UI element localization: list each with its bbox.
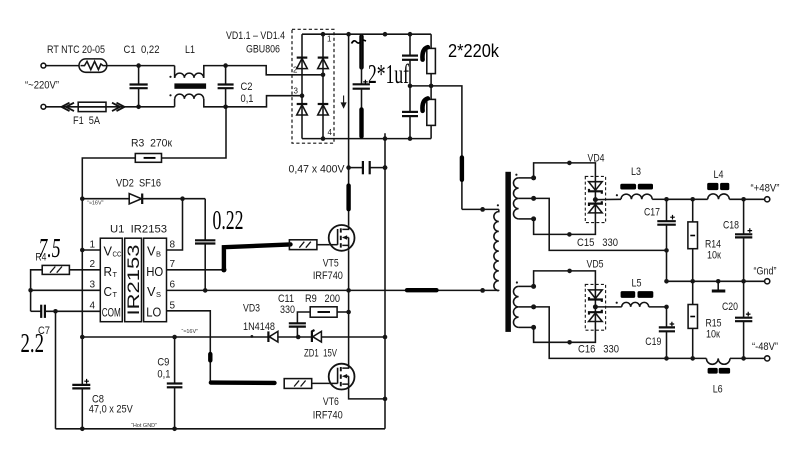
svg-text:2: 2 <box>90 259 96 270</box>
capacitor C19 <box>666 307 668 327</box>
svg-text:C18: C18 <box>723 220 739 232</box>
wire LO pin5 <box>167 311 211 383</box>
node minus rail C <box>408 136 413 141</box>
transformer core <box>505 172 511 332</box>
svg-text:“~220V”: “~220V” <box>25 80 59 92</box>
svg-text:VD3: VD3 <box>243 302 260 314</box>
svg-text:VT6: VT6 <box>323 396 339 408</box>
hand retrace LO <box>208 354 212 360</box>
node C18 top <box>741 197 746 202</box>
node C16 bottom <box>567 340 572 345</box>
svg-text:U1 IR2153: U1 IR2153 <box>110 224 167 236</box>
diode pack VD5 <box>585 284 605 330</box>
node C19 top <box>664 305 669 310</box>
svg-text:“+48V”: “+48V” <box>751 183 780 195</box>
capacitor C2 <box>225 66 227 84</box>
wire DC plus rail <box>302 33 431 35</box>
svg-text:1N4148: 1N4148 <box>243 321 275 333</box>
wire upper sec top to VD4 <box>534 163 596 182</box>
node hot-gnd 0,47 <box>383 165 388 170</box>
node 0,47 left <box>346 165 351 170</box>
node C17 top <box>664 197 669 202</box>
svg-text:3: 3 <box>294 87 299 96</box>
resistor R3 <box>162 107 227 158</box>
wire Gnd rail <box>667 280 765 282</box>
wire VT5 source to VT6 drain <box>348 251 350 364</box>
clip mark left <box>66 103 74 111</box>
wire VT6 source <box>349 390 385 399</box>
node Vcc VD2 <box>80 196 85 201</box>
svg-text:7.5: 7.5 <box>39 233 61 263</box>
node C15 bottom <box>567 232 572 237</box>
hand stroke HO to gate <box>224 244 291 269</box>
node -48 C20 <box>741 356 746 361</box>
choke L6 <box>706 358 730 364</box>
svg-text:R: R <box>104 264 113 279</box>
terminal Gnd <box>765 279 770 284</box>
svg-text:L1: L1 <box>185 44 195 56</box>
node C7 out <box>53 309 58 314</box>
IC pin name VS <box>147 284 161 299</box>
svg-text:L5: L5 <box>632 278 642 290</box>
node gnd R14 <box>690 279 695 284</box>
resistor VT5 gate <box>289 240 317 250</box>
svg-text:ZD1 15V: ZD1 15V <box>304 347 337 359</box>
choke L5 <box>595 306 621 308</box>
node Vcc pin1 <box>80 248 85 253</box>
node VD2 out <box>180 196 185 201</box>
resistor bleeder bottom <box>427 99 436 125</box>
diode pack VD4 <box>585 176 605 222</box>
node C17 tap <box>664 248 669 253</box>
svg-text:VD2 SF16: VD2 SF16 <box>116 177 161 189</box>
node bridge AC top <box>321 73 326 78</box>
hand squiggle <box>352 40 367 44</box>
node hot-gnd VT6 source <box>383 397 388 402</box>
svg-text:C: C <box>104 284 113 299</box>
svg-text:T: T <box>113 270 118 279</box>
hand blob on bottom bleeder <box>422 98 427 110</box>
node gnd C18 <box>741 279 746 284</box>
secondary winding upper <box>513 174 536 222</box>
svg-text:T: T <box>113 290 118 299</box>
svg-text:“-48V”: “-48V” <box>752 341 778 353</box>
svg-text:C2: C2 <box>241 81 253 93</box>
svg-text:C9: C9 <box>157 357 169 369</box>
svg-text:GBU806: GBU806 <box>246 44 280 56</box>
svg-text:R9 200: R9 200 <box>305 293 340 305</box>
node C16 top <box>567 269 572 274</box>
node C1 top <box>136 63 141 68</box>
capacitor bootstrap 0.22 <box>204 199 206 240</box>
node bootstrap bottom <box>203 288 208 293</box>
svg-text:B: B <box>156 250 161 259</box>
node bridge plus out <box>321 32 326 37</box>
choke L3 <box>595 198 621 200</box>
node plus rail B <box>383 32 388 37</box>
capacitor C20 <box>743 281 745 317</box>
svg-text:2: 2 <box>293 66 298 75</box>
node plus rail A <box>346 32 351 37</box>
resistor R4 <box>69 269 100 271</box>
svg-text:8: 8 <box>170 240 176 251</box>
fuse F1 <box>78 102 106 111</box>
svg-text:L4: L4 <box>714 169 724 181</box>
terminal -48V <box>765 356 770 361</box>
wire elec branch bottom <box>361 89 363 139</box>
op-amp U1 IR2153 body <box>100 238 122 322</box>
node C1 bottom <box>136 105 141 110</box>
resistor R15 <box>692 281 694 304</box>
node VS switch <box>346 288 351 293</box>
wire AC top: NTC to L1 <box>107 65 175 67</box>
svg-text:4: 4 <box>90 301 96 312</box>
wire hot gnd rail <box>56 428 386 430</box>
svg-text:L6: L6 <box>713 384 723 396</box>
capacitor divider bottom <box>409 86 411 112</box>
hand bar over elec branch bottom <box>359 109 363 136</box>
svg-text:“≈16V”: “≈16V” <box>182 329 199 335</box>
choke L1 common-mode <box>174 66 176 78</box>
node -48 R15 <box>690 356 695 361</box>
diode VD1.4 <box>318 105 329 115</box>
hand bar over elec branch top <box>359 36 363 67</box>
IC pin name VB <box>147 244 161 259</box>
hand bars L5 <box>621 291 636 298</box>
svg-text:C19: C19 <box>645 336 661 348</box>
bridge VD1.1-VD1.4 box <box>292 29 334 143</box>
wire lower sec bottom to VD5 <box>534 322 596 343</box>
capacitor divider top <box>409 34 411 55</box>
svg-text:VD5: VD5 <box>587 259 604 271</box>
svg-text:1: 1 <box>327 35 332 44</box>
transistor VT6 IRF740 <box>329 364 355 390</box>
resistor bleeder top <box>430 34 432 48</box>
capacitor C17 <box>666 199 668 220</box>
svg-text:C20: C20 <box>722 301 738 313</box>
wire VB pin8 <box>167 199 183 250</box>
wire VT5 drain vertical <box>348 34 350 225</box>
terminal input N <box>41 104 46 109</box>
node CT junction <box>28 288 33 293</box>
svg-text:2*1uf: 2*1uf <box>368 59 409 89</box>
bridge right leg wire <box>322 34 324 138</box>
svg-text:2.2: 2.2 <box>21 328 45 358</box>
IC pin name RT <box>104 264 118 279</box>
node 16V C9 <box>172 335 177 340</box>
svg-text:VD1.1 – VD1.4: VD1.1 – VD1.4 <box>226 30 285 42</box>
svg-text:LO: LO <box>146 306 161 320</box>
wire AC bottom: terminal to fuse to C1 <box>46 106 175 108</box>
node bridge AC bottom <box>300 93 305 98</box>
svg-text:1: 1 <box>90 240 96 251</box>
svg-text:VT5: VT5 <box>323 258 339 270</box>
svg-text:10к: 10к <box>706 329 720 341</box>
wire divider mid to transformer <box>410 86 462 209</box>
wire lower sec top to VD5 <box>534 271 596 290</box>
diode VD1.1 <box>297 58 308 68</box>
resistor VT6 gate <box>284 379 312 389</box>
transformer primary winding <box>462 208 499 210</box>
diode VD2 SF16 <box>82 198 129 200</box>
thermistor RT <box>79 59 107 72</box>
svg-text:S: S <box>156 290 161 299</box>
resistor R9 <box>310 307 337 317</box>
svg-text:4: 4 <box>328 128 333 137</box>
terminal +48V <box>765 197 770 202</box>
secondary winding lower <box>513 281 536 330</box>
node hot-gnd VD3 rail <box>383 335 388 340</box>
svg-text:C15 330: C15 330 <box>577 237 618 249</box>
node gnd C17 <box>664 279 669 284</box>
wire C7 to gnd rail <box>55 311 57 429</box>
svg-text:C11: C11 <box>278 293 294 305</box>
hand bars L4 <box>707 183 718 190</box>
capacitor C7 <box>31 310 41 312</box>
svg-text:V: V <box>147 244 156 259</box>
svg-text:IRF740: IRF740 <box>313 410 343 422</box>
capacitor C9 <box>174 337 176 383</box>
wire pin1 stub <box>82 249 100 251</box>
svg-text:VD4: VD4 <box>588 153 605 165</box>
svg-text:C1 0,22: C1 0,22 <box>124 44 160 56</box>
svg-text:L3: L3 <box>631 166 641 178</box>
node bridge minus out <box>321 136 326 141</box>
svg-text:0.22: 0.22 <box>213 205 244 235</box>
svg-text:3: 3 <box>90 280 96 291</box>
IC pin name Vcc <box>104 244 122 259</box>
svg-text:F1 5A: F1 5A <box>73 115 101 127</box>
wire hot-gnd vertical <box>384 133 386 429</box>
diode VD1.3 <box>297 105 308 115</box>
svg-text:IRF740: IRF740 <box>313 270 343 282</box>
svg-text:R3 270к: R3 270к <box>131 138 172 150</box>
node R14 top <box>690 197 695 202</box>
wire elec branch top <box>361 34 363 83</box>
node C2 bottom <box>223 105 228 110</box>
terminal input L <box>41 63 46 68</box>
svg-text:0,1: 0,1 <box>241 93 254 105</box>
svg-text:V: V <box>147 284 156 299</box>
svg-text:“Gnd”: “Gnd” <box>754 266 777 278</box>
IC pin name CT <box>104 284 118 299</box>
primary polarity dot <box>497 204 499 206</box>
wire Vcc bus <box>81 199 83 385</box>
capacitor C18 <box>743 199 745 234</box>
svg-text:C17: C17 <box>644 207 660 219</box>
svg-text:CC: CC <box>113 250 122 259</box>
node 16V C11 <box>296 335 301 340</box>
hand bar on primary feed <box>460 157 464 179</box>
diode VD1.2 <box>318 58 329 68</box>
wire AC top: terminal to NTC <box>46 65 79 67</box>
capacitor 0,47x400V <box>349 167 363 169</box>
node gnd C9 <box>172 427 177 432</box>
hand bars L6 <box>708 368 718 374</box>
svg-text:IR2153: IR2153 <box>125 245 143 316</box>
node C2 top <box>223 63 228 68</box>
node divider mid <box>408 84 413 89</box>
L1 polarity dots <box>169 76 171 78</box>
svg-text:V: V <box>104 244 113 259</box>
node Vcc gnd rail <box>80 427 85 432</box>
hand bar on switch rail <box>407 288 437 292</box>
wire DC minus rail <box>302 138 431 140</box>
capacitor elec bulk <box>353 83 370 85</box>
bridge left leg wire <box>301 34 303 138</box>
svg-text:0,47 x 400V: 0,47 x 400V <box>289 164 346 176</box>
svg-text:0,1: 0,1 <box>157 369 170 381</box>
svg-text:C16 330: C16 330 <box>578 344 619 356</box>
node plus rail C <box>408 32 413 37</box>
svg-text:7: 7 <box>170 259 176 270</box>
wire pin3 CT <box>31 289 101 291</box>
svg-text:2*220k: 2*220k <box>448 40 500 61</box>
svg-text:330: 330 <box>280 304 295 316</box>
hand stroke LO to gate <box>211 380 275 385</box>
wire AC top to bridge <box>226 66 323 75</box>
current arrow <box>341 96 345 108</box>
node R9 to switch node <box>346 310 351 315</box>
svg-text:RT NTC 20-05: RT NTC 20-05 <box>47 44 105 56</box>
node 0,47 right <box>383 165 388 170</box>
svg-text:“≈16V”: “≈16V” <box>87 201 104 207</box>
node C15 top <box>567 161 572 166</box>
capacitor C1 <box>138 66 140 84</box>
hand bar on VT5 drain <box>346 186 350 210</box>
capacitor C11 <box>297 312 310 323</box>
transistor VT5 IRF740 <box>329 225 355 251</box>
svg-text:47,0 x 25V: 47,0 x 25V <box>89 404 134 416</box>
clip mark right <box>112 103 120 111</box>
node -48 C19 <box>664 356 669 361</box>
diode VD3 1N4148 <box>269 331 278 342</box>
hand blob on top bleeder <box>422 47 427 59</box>
node gnd sym <box>716 279 721 284</box>
wire VS rail pin6 <box>167 289 499 291</box>
resistor R14 <box>692 199 694 222</box>
wire upper center tap <box>534 198 667 250</box>
wire +48 rail <box>667 198 708 200</box>
capacitor C8 <box>72 384 90 386</box>
wire lower center tap <box>534 307 707 359</box>
node bleeder mid <box>429 84 434 89</box>
node 16V small <box>251 335 254 338</box>
ground symbol <box>717 281 719 289</box>
svg-text:HO: HO <box>146 265 163 279</box>
node minus rail B <box>383 136 388 141</box>
choke L4 <box>708 194 730 199</box>
wire AC bottom to bridge <box>226 96 302 107</box>
hand bars L3 <box>620 184 636 190</box>
zener ZD1 <box>313 331 322 342</box>
node Vcc 16V rail <box>80 335 85 340</box>
svg-text:“Hot GND”: “Hot GND” <box>131 423 157 429</box>
svg-text:5: 5 <box>170 301 176 312</box>
wire upper sec bottom to VD4 <box>534 213 596 235</box>
wire 16V rail <box>82 336 268 338</box>
svg-text:COM: COM <box>102 306 121 320</box>
svg-text:10к: 10к <box>707 250 721 262</box>
wire HO pin7 <box>167 269 224 271</box>
svg-text:6: 6 <box>170 280 176 291</box>
